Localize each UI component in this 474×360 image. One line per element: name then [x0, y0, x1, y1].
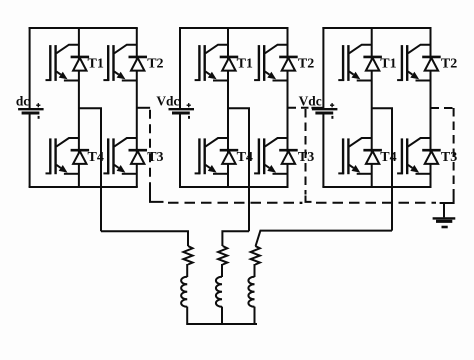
T1 (bridge 1) antiparallel diode — [71, 57, 90, 71]
wire: dashed vertical 3 — [453, 108, 455, 190]
wire: RA to LA — [186, 264, 188, 277]
T1 (bridge 3) gate lead — [338, 79, 344, 81]
transistor T2 (bridge 1) — [103, 45, 136, 81]
wire: bridge 1 output tap — [79, 108, 101, 231]
T2 (bridge 2) antiparallel diode — [279, 57, 298, 71]
resistor RA — [183, 246, 192, 265]
transistor T3 (bridge 2) — [254, 138, 287, 174]
wire: LB to neutral — [221, 307, 223, 325]
wire: bridge 3 dashed stub — [431, 107, 454, 109]
T4 (bridge 2) gate lead — [195, 172, 201, 174]
wire: bridge 3 bottom rail — [322, 186, 431, 188]
T1 (bridge 3) antiparallel diode — [363, 57, 382, 71]
T1 (bridge 1) collector wire — [56, 45, 79, 54]
wire: bridge 3 left leg — [371, 28, 373, 187]
T2 (bridge 3) antiparallel diode — [422, 57, 441, 71]
T4 (bridge 1) antiparallel diode — [71, 150, 90, 164]
resistor RB — [218, 246, 227, 265]
wire: bus right corner — [440, 190, 454, 203]
T2 (bridge 1) emitter wire with arrow — [114, 72, 119, 75]
T1 (bridge 3) channel bar — [347, 45, 349, 81]
svg-text:T4: T4 — [380, 150, 396, 165]
svg-text:T1: T1 — [88, 57, 104, 72]
T2 (bridge 2) gate lead — [254, 79, 260, 81]
transistor T3 (bridge 3) — [397, 138, 430, 174]
T2 (bridge 2) emitter wire with arrow — [265, 72, 270, 75]
wire: bus junction 2 corner — [306, 196, 312, 202]
resistor RC — [251, 246, 260, 265]
T3 (bridge 2) emitter wire with arrow — [265, 165, 270, 168]
T2 (bridge 1) collector wire — [114, 45, 137, 54]
wire: LA to neutral — [186, 307, 188, 325]
T1 (bridge 2) emitter wire with arrow — [205, 72, 210, 75]
T3 (bridge 3) gate bar — [401, 138, 403, 174]
T3 (bridge 2) antiparallel diode — [279, 150, 298, 164]
transistor T1 (bridge 3) — [338, 45, 371, 81]
T4 (bridge 1) gate bar — [49, 138, 51, 174]
T2 (bridge 1) gate bar — [107, 45, 109, 81]
wire: RB to LB — [221, 264, 223, 277]
T2 (bridge 2) channel bar — [263, 45, 265, 81]
wire: bridge 1 left rail lower — [29, 113, 31, 187]
T1 (bridge 2) antiparallel diode — [220, 57, 239, 71]
T3 (bridge 2) collector wire — [265, 138, 288, 147]
wire: phase A feed — [101, 231, 188, 246]
T3 (bridge 1) antiparallel diode — [129, 150, 148, 164]
inductor LB — [216, 277, 222, 307]
wire: dashed vertical 2 — [305, 109, 307, 195]
T2 (bridge 3) channel bar — [406, 45, 408, 81]
wire: bridge 2 bottom rail — [179, 186, 289, 188]
T3 (bridge 3) collector wire — [408, 138, 431, 147]
wire: phase B feed — [222, 231, 249, 246]
battery Vdc bridge 3 — [312, 103, 338, 119]
transistor T4 (bridge 1) — [46, 138, 79, 174]
T3 (bridge 3) gate lead — [397, 172, 403, 174]
T2 (bridge 1) antiparallel diode — [129, 57, 148, 71]
wire: bridge 3 left rail upper — [322, 27, 324, 109]
T4 (bridge 2) channel bar — [203, 138, 205, 174]
T4 (bridge 3) gate bar — [342, 138, 344, 174]
wire: bridge 2 right leg — [287, 28, 289, 187]
transistor T3 (bridge 1) — [103, 138, 136, 174]
wire: bridge 1 stub to dashed net — [137, 107, 150, 109]
wire: bridge 3 right leg — [430, 28, 432, 187]
svg-text:T2: T2 — [298, 57, 314, 72]
T3 (bridge 2) gate lead — [254, 172, 260, 174]
T2 (bridge 2) gate bar — [258, 45, 260, 81]
svg-text:T2: T2 — [147, 57, 163, 72]
T3 (bridge 1) gate lead — [103, 172, 109, 174]
T1 (bridge 1) channel bar — [54, 45, 56, 81]
wire: bridge 2 left rail upper — [179, 27, 181, 109]
wire: bridge 2 dashed stub — [288, 107, 309, 109]
wire: bridge 3 left rail lower — [322, 113, 324, 187]
wire: bridge 2 left leg — [227, 28, 229, 187]
wire: bridge 3 output tap — [372, 108, 392, 230]
T3 (bridge 1) emitter wire with arrow — [114, 165, 119, 168]
wire: RC to LC — [254, 264, 256, 277]
transistor T2 (bridge 3) — [397, 45, 430, 81]
T1 (bridge 2) channel bar — [203, 45, 205, 81]
T4 (bridge 1) collector wire — [56, 138, 79, 147]
battery Vdc bridge 2 — [169, 103, 195, 119]
svg-text:dc: dc — [16, 94, 29, 109]
T3 (bridge 3) channel bar — [406, 138, 408, 174]
T1 (bridge 1) gate bar — [49, 45, 51, 81]
wire: bridge 2 left rail lower — [179, 113, 181, 187]
T4 (bridge 3) gate lead — [338, 172, 344, 174]
wire: dashed vertical 1 — [149, 110, 151, 191]
transistor T1 (bridge 1) — [46, 45, 79, 81]
T4 (bridge 3) collector wire — [349, 138, 372, 147]
T3 (bridge 1) collector wire — [114, 138, 137, 147]
wire: dashed ground bus right span — [316, 202, 436, 204]
wire: bridge 1 right leg — [136, 28, 138, 187]
transistor T2 (bridge 2) — [254, 45, 287, 81]
svg-text:T1: T1 — [380, 57, 396, 72]
T1 (bridge 2) gate bar — [198, 45, 200, 81]
wire: bridge 3 top rail — [322, 27, 431, 29]
T2 (bridge 1) channel bar — [112, 45, 114, 81]
transistor T1 (bridge 2) — [195, 45, 228, 81]
wire: bridge 2 output tap — [228, 108, 249, 231]
svg-text:T4: T4 — [237, 150, 253, 165]
T4 (bridge 3) antiparallel diode — [363, 150, 382, 164]
T2 (bridge 2) collector wire — [265, 45, 288, 54]
T3 (bridge 1) channel bar — [112, 138, 114, 174]
T2 (bridge 3) gate lead — [397, 79, 403, 81]
T4 (bridge 1) emitter wire with arrow — [56, 165, 61, 168]
wire: bridge 1 left rail upper — [29, 27, 31, 109]
T2 (bridge 3) emitter wire with arrow — [408, 72, 413, 75]
T1 (bridge 2) gate lead — [195, 79, 201, 81]
T3 (bridge 3) emitter wire with arrow — [408, 165, 413, 168]
T4 (bridge 3) emitter wire with arrow — [349, 165, 354, 168]
T3 (bridge 3) antiparallel diode — [422, 150, 441, 164]
T1 (bridge 1) gate lead — [46, 79, 52, 81]
T2 (bridge 3) gate bar — [401, 45, 403, 81]
wire: LC to neutral — [254, 307, 256, 325]
wire: phase C feed — [256, 231, 392, 246]
T4 (bridge 2) emitter wire with arrow — [205, 165, 210, 168]
wire: bridge 1 top rail — [29, 27, 138, 29]
wire: bridge 2 top rail — [179, 27, 289, 29]
inductor LC — [248, 277, 254, 307]
T3 (bridge 2) channel bar — [263, 138, 265, 174]
wire: neutral line — [186, 323, 257, 325]
ground — [433, 203, 456, 227]
wire: bridge 1 left leg — [78, 28, 80, 187]
T3 (bridge 2) gate bar — [258, 138, 260, 174]
battery Vdc bridge 1 — [18, 103, 43, 119]
T2 (bridge 3) collector wire — [408, 45, 431, 54]
T1 (bridge 3) collector wire — [349, 45, 372, 54]
T4 (bridge 3) channel bar — [347, 138, 349, 174]
T1 (bridge 1) emitter wire with arrow — [56, 72, 61, 75]
wire: bus left corner — [150, 191, 164, 202]
T1 (bridge 3) emitter wire with arrow — [349, 72, 354, 75]
T4 (bridge 2) gate bar — [198, 138, 200, 174]
svg-text:Vdc: Vdc — [156, 94, 179, 109]
transistor T4 (bridge 2) — [195, 138, 228, 174]
transistor T4 (bridge 3) — [338, 138, 371, 174]
T4 (bridge 2) collector wire — [205, 138, 228, 147]
T1 (bridge 2) collector wire — [205, 45, 228, 54]
svg-text:T1: T1 — [237, 57, 253, 72]
inductor LA — [181, 277, 187, 307]
T4 (bridge 1) gate lead — [46, 172, 52, 174]
svg-text:Vdc: Vdc — [299, 94, 322, 109]
svg-text:T3: T3 — [441, 150, 457, 165]
T1 (bridge 3) gate bar — [342, 45, 344, 81]
wire: dashed ground bus left span — [168, 202, 298, 204]
wire: bridge 1 bottom rail — [29, 186, 138, 188]
T4 (bridge 1) channel bar — [54, 138, 56, 174]
svg-text:T2: T2 — [441, 57, 457, 72]
junction dot on bus — [300, 202, 303, 204]
T3 (bridge 1) gate bar — [107, 138, 109, 174]
wire: bridge 2 stub end segment — [311, 107, 323, 109]
T4 (bridge 2) antiparallel diode — [220, 150, 239, 164]
T2 (bridge 1) gate lead — [103, 79, 109, 81]
